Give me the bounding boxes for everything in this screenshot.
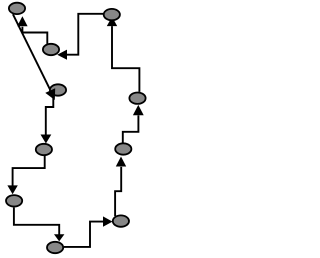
wire edge E to J [46,96,54,135]
arrowhead into B [107,17,117,27]
arrowhead into I [7,185,17,194]
node E [50,84,66,95]
arrowhead into A [17,16,27,26]
arrowhead into C [57,50,67,60]
node H [47,242,63,253]
arrowhead into G [103,216,113,226]
arrowhead into H [54,234,64,241]
wire edge C to A [22,27,47,44]
node F [115,143,131,154]
node A [9,3,25,14]
wire edge G to F [115,167,121,216]
wire edge B to C [67,14,103,55]
node C [43,44,59,55]
arrowhead into D [133,105,144,115]
wire edge H to G [64,222,104,247]
arrowhead into F [116,157,126,167]
node B [104,9,120,20]
arrowhead into E (drawn over node) [45,88,55,100]
node I [6,195,22,206]
wire edge D to B [112,26,139,92]
wire edge J to I [13,156,45,186]
wire edge F to D [123,115,139,142]
arrowhead into J [41,135,52,144]
node J [36,144,52,155]
wire edge I to H [14,207,59,234]
node D [129,93,145,104]
wire edge A to E (diagonal) [13,14,50,90]
node G [113,215,129,226]
